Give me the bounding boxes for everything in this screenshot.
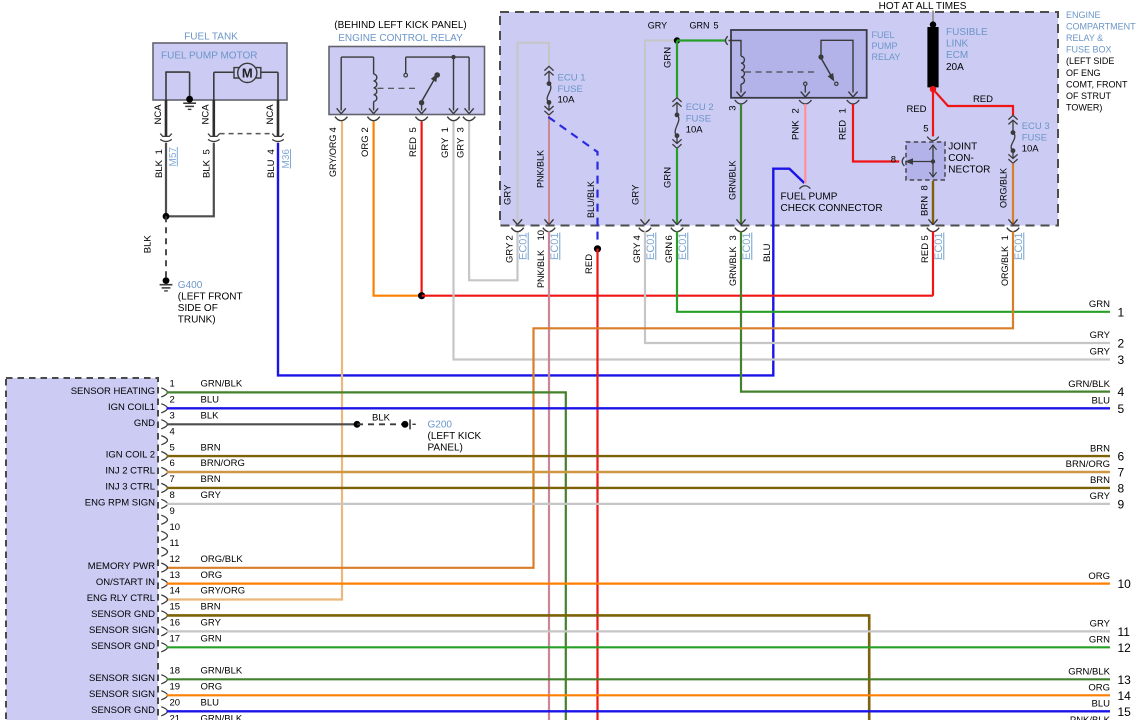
svg-text:ORG: ORG [1088, 683, 1110, 694]
ECM pin 12 MEMORY PWR [88, 554, 244, 572]
wire motor left lead [213, 72, 215, 100]
label M36 [281, 149, 292, 169]
svg-text:10A: 10A [558, 95, 576, 106]
joint connector internal horizontal [905, 158, 933, 164]
svg-text:NECTOR: NECTOR [948, 165, 990, 176]
wire BLK 1 down [165, 143, 167, 217]
label PNK/BLK 10 EC01 [536, 230, 561, 288]
svg-text:GRN: GRN [1089, 299, 1110, 310]
wire GRY feed (to ECU1 fuse) [518, 43, 550, 225]
svg-text:13: 13 [1118, 673, 1132, 687]
right edge net 14 ORG [1088, 683, 1131, 703]
svg-text:BLU: BLU [1092, 699, 1111, 710]
svg-text:FUSE: FUSE [686, 113, 711, 124]
wire GRN (ECU2 fuse out) [676, 148, 678, 225]
wire BLU 4 (motor to fuel pump check connector) [278, 143, 804, 376]
wire GRN (fuse GRN6 to right edge 1) [677, 231, 1110, 311]
svg-text:FUEL TANK: FUEL TANK [184, 31, 238, 42]
junction dot BLU/BLK to RED [594, 245, 601, 252]
label ENGINE CONTROL RELAY [338, 33, 463, 44]
svg-text:3: 3 [728, 235, 739, 240]
relay pin RED 5 [415, 108, 427, 120]
svg-text:CON-: CON- [948, 153, 974, 164]
svg-text:5: 5 [170, 442, 175, 453]
ECM pin 10 [161, 522, 180, 540]
svg-text:GRY: GRY [1090, 491, 1111, 502]
svg-text:FUEL PUMP: FUEL PUMP [781, 191, 838, 202]
svg-text:FUSE: FUSE [558, 84, 583, 95]
fuse ECU3 [1008, 115, 1017, 163]
svg-text:12: 12 [1118, 641, 1132, 655]
junction dot top rail [451, 55, 455, 59]
wire PNK (fp relay pin2 to check connector) [804, 104, 806, 183]
junction dot fusible top [930, 21, 936, 27]
svg-text:TRUNK): TRUNK) [178, 315, 216, 326]
fuel pump relay coil tail [740, 84, 742, 93]
svg-text:PNK/BLK: PNK/BLK [1070, 715, 1111, 720]
engine compartment relay &amp; fuse box (dashed enclosure) [500, 12, 1058, 226]
svg-text:ECU 3: ECU 3 [1022, 121, 1050, 132]
dashed actuator link 2 [745, 71, 817, 73]
label RED 5 [408, 127, 419, 157]
wire BLK dashed to G400 [165, 216, 167, 280]
wire RED horizontal bus [422, 295, 933, 297]
svg-text:10: 10 [536, 230, 547, 241]
label NCA (pin5) [201, 104, 212, 125]
wire ORG pin13 (to right edge 10) [167, 582, 1111, 584]
svg-text:BLU: BLU [1092, 396, 1111, 407]
coil tail [373, 102, 375, 111]
right edge net 3 GRY [1090, 347, 1125, 367]
right edge net 2 GRY [1090, 330, 1125, 350]
coil L1 (engine control relay) [374, 74, 377, 101]
wire BLK pin5 (tank) [213, 100, 216, 137]
joint connector pin 8 arc [902, 157, 904, 166]
svg-text:EC01: EC01 [518, 232, 530, 260]
svg-text:GRN: GRN [690, 20, 710, 30]
label GRN (below fuse) [662, 167, 673, 188]
wire BLK dashed (to G200) [357, 423, 405, 425]
svg-text:EC01: EC01 [933, 232, 945, 260]
svg-text:ORG: ORG [1088, 571, 1110, 582]
svg-text:ORG: ORG [360, 135, 371, 157]
svg-text:14: 14 [1118, 689, 1132, 703]
svg-text:7: 7 [1118, 466, 1125, 480]
switch fixed contact [404, 57, 408, 77]
svg-text:1: 1 [170, 379, 175, 390]
svg-text:BLU: BLU [201, 395, 220, 406]
switch arm (engine control relay) [419, 72, 440, 111]
svg-text:5: 5 [408, 127, 419, 132]
wire RED (fusible to ECU3 fuse) [933, 89, 1013, 115]
ECM pin 6 INJ 2 CTRL [105, 458, 244, 476]
relay pin GRY/ORG 4 [335, 108, 347, 120]
wire PNK/BLK (ECU1 fuse out) [548, 115, 550, 225]
svg-text:1: 1 [440, 127, 451, 132]
svg-text:GRY: GRY [503, 184, 514, 205]
ECM pin 15 SENSOR GND [91, 602, 221, 620]
ECM pin 13 ON/START IN [96, 570, 222, 588]
motor M1 (fuel pump motor symbol) [214, 63, 278, 82]
wire GRN/BLK pin1 [167, 392, 566, 720]
fuel tank box [153, 43, 287, 100]
svg-text:SENSOR GND: SENSOR GND [91, 705, 155, 716]
svg-text:GRY: GRY [630, 184, 641, 205]
svg-text:GRY: GRY [1090, 347, 1111, 358]
wire to pin3 [468, 57, 470, 110]
label GRY 2 EC01 [504, 232, 529, 263]
ECM pin 17 SENSOR GND [91, 634, 222, 652]
svg-text:INJ 2 CTRL: INJ 2 CTRL [105, 466, 155, 477]
relay pin ORG 2 [367, 108, 379, 120]
wire GRN/BLK (fuse pin3 to right edge 4) [741, 231, 1110, 391]
label BLU (below fuse box) [762, 243, 773, 262]
svg-text:BLK: BLK [154, 159, 165, 178]
svg-text:ECU 1: ECU 1 [558, 73, 586, 84]
wire ORG (relay pin2) [374, 122, 422, 296]
svg-text:GRN: GRN [1089, 635, 1110, 646]
svg-text:14: 14 [170, 586, 181, 597]
svg-text:GRN/BLK: GRN/BLK [201, 666, 243, 677]
svg-text:ECM: ECM [946, 50, 968, 61]
svg-text:SENSOR GND: SENSOR GND [91, 641, 155, 652]
svg-text:PNK: PNK [790, 120, 801, 140]
connector M57 pin5 [208, 134, 220, 142]
wire BRN pin15 (down at right) [167, 615, 870, 720]
svg-text:16: 16 [170, 618, 181, 629]
label GRY 1 [440, 127, 451, 158]
label M57 [168, 147, 179, 167]
wire GRY (fuse GRY4 to right edge 2) [645, 231, 1110, 343]
joint connector box [906, 142, 945, 180]
right edge net 4 GRN/BLK [1068, 379, 1124, 399]
svg-text:ENGINE: ENGINE [1066, 10, 1101, 20]
wire to pin1 [453, 57, 455, 110]
svg-text:9: 9 [1118, 498, 1125, 512]
svg-text:3: 3 [1118, 353, 1125, 367]
svg-text:TOWER): TOWER) [1066, 103, 1102, 113]
svg-text:BRN: BRN [1090, 475, 1110, 486]
svg-text:BLK: BLK [202, 159, 213, 178]
svg-text:4: 4 [266, 149, 277, 154]
svg-text:ECU 2: ECU 2 [686, 102, 714, 113]
wire RED (fp relay pin1 to joint connector) [853, 104, 899, 162]
svg-text:GRY: GRY [632, 242, 643, 263]
svg-text:EC01: EC01 [741, 232, 753, 260]
fuse ECU2 [672, 98, 681, 149]
label GRN/BLK 3 EC01 [728, 232, 753, 286]
svg-text:ON/START IN: ON/START IN [96, 577, 155, 588]
label ORG/BLK 1 EC01 [1000, 232, 1025, 286]
ground G400 [160, 277, 173, 291]
svg-text:JOINT: JOINT [948, 142, 977, 153]
label BLK (ground lead) [143, 235, 154, 254]
ECM pin 1 SENSOR HEATING [71, 379, 243, 397]
ECM pin 8 ENG RPM SIGN [85, 490, 222, 508]
label ENGINE COMPARTMENT RELAY & FUSE BOX (location) [1066, 10, 1136, 113]
svg-text:SENSOR SIGN: SENSOR SIGN [89, 625, 155, 636]
svg-text:PUMP: PUMP [872, 41, 898, 51]
svg-text:GRY: GRY [201, 490, 222, 501]
svg-text:NCA: NCA [153, 104, 164, 125]
label FUEL PUMP CHECK CONNECTOR [781, 191, 883, 214]
check connector arc [799, 186, 810, 189]
fuel pump relay top rail [821, 40, 853, 92]
ECM pin 21 SENSOR GND [91, 714, 243, 720]
svg-text:8: 8 [891, 155, 896, 166]
label GRY 3 [456, 127, 467, 158]
ECM pin 2 IGN COIL1 [108, 395, 219, 413]
svg-text:GRY/ORG: GRY/ORG [201, 586, 246, 597]
svg-text:PANEL): PANEL) [428, 443, 463, 454]
svg-text:FUEL PUMP MOTOR: FUEL PUMP MOTOR [161, 51, 258, 62]
svg-text:6: 6 [664, 235, 675, 240]
label GRY/ORG 4 [328, 127, 339, 177]
connector M57 pin1 [160, 134, 172, 142]
svg-text:BRN: BRN [201, 474, 221, 485]
label GRY (fuse box GRY4) [630, 184, 641, 205]
svg-text:GRY: GRY [1090, 330, 1111, 341]
svg-text:7: 7 [170, 474, 175, 485]
wire RED (fuse RED5 to bus) [932, 231, 934, 295]
svg-text:BLU/BLK: BLU/BLK [586, 181, 596, 218]
label GRY (top) [648, 20, 667, 30]
svg-text:MEMORY PWR: MEMORY PWR [88, 561, 155, 572]
svg-text:PNK/BLK: PNK/BLK [536, 150, 546, 188]
svg-text:GRN: GRN [664, 242, 675, 263]
svg-text:1: 1 [154, 149, 165, 154]
svg-text:11: 11 [1118, 625, 1131, 639]
fuse box pin GRN 6 [671, 219, 683, 231]
svg-text:BRN: BRN [201, 602, 221, 613]
svg-text:RED: RED [906, 104, 926, 115]
junction dot case ground [186, 96, 193, 103]
svg-text:INJ 3 CTRL: INJ 3 CTRL [105, 482, 155, 493]
label GRY (fuse box left) [503, 184, 514, 205]
joint connector pin 5 cup [927, 137, 939, 141]
right edge net 6 BRN [1090, 443, 1125, 463]
svg-text:2: 2 [170, 395, 175, 406]
ECM pin 4 [161, 426, 174, 444]
svg-text:ORG: ORG [201, 682, 223, 693]
wire BLK pin3 (to G200) [167, 423, 358, 425]
svg-text:GRN: GRN [201, 634, 222, 645]
svg-text:FUSE: FUSE [1022, 132, 1047, 143]
svg-text:GRY: GRY [648, 20, 667, 30]
svg-text:9: 9 [170, 506, 175, 517]
svg-text:BRN/ORG: BRN/ORG [1066, 459, 1110, 470]
svg-text:5: 5 [714, 20, 719, 30]
right edge net 12 GRN [1089, 635, 1131, 655]
wire motor right lead [277, 72, 279, 100]
svg-text:OF ENG: OF ENG [1066, 68, 1101, 78]
wire BLK 5 down and over [166, 143, 214, 217]
svg-text:SENSOR GND: SENSOR GND [91, 609, 155, 620]
svg-text:3: 3 [170, 411, 175, 422]
wire ORG pin19 (to right edge 14) [167, 694, 1111, 696]
svg-text:(BEHIND LEFT KICK PANEL): (BEHIND LEFT KICK PANEL) [334, 20, 466, 31]
fuel pump relay box [731, 30, 867, 98]
label G400 [178, 280, 243, 326]
label 8 (joint connector) [891, 155, 896, 166]
ECM pin 7 INJ 3 CTRL [105, 474, 220, 492]
ECM pin 3 GND [134, 411, 219, 429]
svg-text:ORG/BLK: ORG/BLK [1000, 246, 1010, 286]
svg-text:IGN COIL 2: IGN COIL 2 [106, 450, 155, 461]
svg-text:RELAY &: RELAY & [1066, 33, 1103, 43]
label GRN 5 (top) [690, 20, 719, 30]
fuse box pin GRY 4 [639, 219, 651, 231]
label ECU 2 FUSE 10A [686, 102, 714, 136]
svg-text:ORG/BLK: ORG/BLK [998, 168, 1008, 208]
label GRN 6 EC01 [664, 232, 689, 263]
svg-text:EC01: EC01 [645, 232, 657, 260]
svg-text:11: 11 [170, 538, 180, 549]
ECM pin 14 ENG RLY CTRL [87, 586, 245, 604]
junction dot GRN node [674, 37, 680, 43]
label RED (left) [906, 104, 926, 115]
wire GRN (junction to relay pin5) [677, 39, 725, 41]
junction dot joint connector [931, 159, 935, 163]
junction dot BLK [163, 213, 170, 220]
wire GRY pin16 (to right edge 11) [167, 630, 1111, 632]
svg-text:COMT, FRONT: COMT, FRONT [1066, 79, 1128, 89]
label HOT AT ALL TIMES [879, 1, 967, 12]
svg-text:GRY: GRY [1090, 619, 1111, 630]
svg-text:M: M [242, 66, 253, 81]
svg-text:RED: RED [584, 254, 595, 274]
svg-text:CHECK CONNECTOR: CHECK CONNECTOR [781, 203, 883, 214]
svg-text:RED: RED [973, 94, 993, 105]
svg-text:FUSE BOX: FUSE BOX [1066, 45, 1112, 55]
svg-text:18: 18 [170, 666, 181, 677]
svg-text:HOT AT ALL TIMES: HOT AT ALL TIMES [879, 1, 967, 12]
label 3 / GRN/BLK [728, 106, 739, 200]
svg-text:SENSOR SIGN: SENSOR SIGN [89, 689, 155, 700]
wire GRY pin8 (to right edge 9) [167, 503, 1111, 505]
svg-text:4: 4 [170, 426, 175, 437]
fuel pump relay coil branch [729, 41, 742, 57]
svg-text:SENSOR SIGN: SENSOR SIGN [89, 673, 155, 684]
label PNK/BLK (inside box) [536, 150, 546, 188]
svg-text:RED: RED [920, 243, 931, 263]
wire GRY (relay pin1 to right edge 3) [454, 122, 1111, 360]
junction dot G200 splice [354, 421, 361, 428]
svg-text:BLK: BLK [143, 235, 154, 254]
label RED (below splice) [584, 254, 595, 274]
svg-text:1: 1 [1118, 305, 1125, 319]
label BLU/BLK [586, 181, 596, 218]
wire fuel-tank internal left (to case ground) [165, 72, 189, 100]
ECM pin 11 [161, 538, 179, 556]
svg-text:1: 1 [838, 108, 849, 113]
wire BRN/ORG pin6 (to right edge 7) [167, 471, 1111, 473]
wire BLK pin1 (tank) [165, 100, 168, 137]
dashed link between connectors [220, 133, 273, 135]
relay top rail [406, 56, 469, 58]
label BRN 8 (inside box) [920, 185, 931, 216]
svg-text:BLU: BLU [762, 243, 773, 262]
svg-text:GRN/BLK: GRN/BLK [728, 246, 738, 286]
right edge net 13 GRN/BLK [1068, 667, 1131, 687]
svg-text:8: 8 [920, 185, 931, 190]
fp relay pin GRN/BLK 3 [735, 92, 747, 104]
svg-text:RELAY: RELAY [872, 52, 901, 62]
svg-text:4: 4 [632, 235, 643, 240]
svg-text:G400: G400 [178, 280, 203, 291]
svg-text:GRY/ORG: GRY/ORG [328, 135, 338, 177]
svg-text:6: 6 [1118, 450, 1125, 464]
svg-text:FUEL: FUEL [872, 30, 895, 40]
fuse box pin ORGBLK 1 [1007, 219, 1019, 231]
svg-text:GRN/BLK: GRN/BLK [1068, 667, 1110, 678]
svg-text:OF STRUT: OF STRUT [1066, 91, 1111, 101]
wire BRN 8 (joint connector down) [932, 181, 934, 225]
svg-text:1: 1 [1000, 235, 1011, 240]
wire NCA pin4 (tank) [277, 100, 280, 137]
wire BLU/BLK dashed [548, 117, 597, 249]
svg-text:10A: 10A [1022, 143, 1040, 154]
joint connector internal vertical [929, 145, 936, 177]
label FUSIBLE LINK ECM 20A [946, 27, 988, 73]
svg-text:RED: RED [408, 137, 419, 157]
label ORG/BLK (inside box) [998, 168, 1008, 208]
svg-text:15: 15 [1118, 705, 1132, 719]
svg-text:BLU: BLU [201, 698, 220, 709]
wire BLU pin20 (to right edge 15) [167, 710, 1111, 712]
svg-text:GRN/BLK: GRN/BLK [728, 160, 738, 200]
label G200 [428, 420, 482, 454]
coil L2 (fuel pump relay) [741, 56, 744, 84]
svg-text:10: 10 [170, 522, 181, 533]
svg-text:GRY: GRY [504, 242, 515, 263]
relay entry connector GRN 5 [726, 36, 728, 45]
svg-text:LINK: LINK [946, 39, 969, 50]
svg-text:ENGINE CONTROL RELAY: ENGINE CONTROL RELAY [338, 33, 463, 44]
dashed actuator link [378, 87, 420, 89]
label BLK 5 [202, 149, 213, 178]
label ECU 3 FUSE 10A [1022, 121, 1050, 154]
svg-text:21: 21 [170, 714, 181, 720]
label NCA (pin4) [265, 104, 276, 125]
label BLU 4 [266, 149, 277, 178]
svg-text:GRY: GRY [440, 137, 451, 158]
svg-text:EC01: EC01 [1013, 232, 1025, 260]
right edge net 15 BLU [1092, 699, 1132, 719]
label 2 / PNK [790, 108, 801, 140]
label BLK 1 [154, 149, 165, 178]
switch arm 2 [818, 54, 837, 83]
svg-text:G200: G200 [428, 420, 453, 431]
wire RED (down from splice) [596, 249, 598, 720]
relay pin GRY 1 [447, 108, 459, 120]
svg-text:3: 3 [456, 127, 467, 132]
svg-text:ENG RLY CTRL: ENG RLY CTRL [87, 593, 155, 604]
engine control relay box [329, 47, 485, 115]
wire feed (hot at all times) [932, 11, 934, 25]
fuse ECU1 [544, 66, 553, 115]
svg-text:FUSIBLE: FUSIBLE [946, 27, 988, 38]
wire BLU pin2 (to right edge 5) [167, 407, 1111, 409]
svg-text:GRY: GRY [201, 618, 222, 629]
wire GRN/BLK (fp relay pin3 down) [740, 104, 742, 225]
svg-text:RED: RED [838, 120, 849, 140]
svg-text:19: 19 [170, 682, 181, 693]
label RED (right) [973, 94, 993, 105]
wire GRN (junction to ECU2 fuse) [676, 41, 678, 98]
connector M36 pin4 [272, 134, 284, 142]
svg-text:ORG/BLK: ORG/BLK [201, 554, 244, 565]
